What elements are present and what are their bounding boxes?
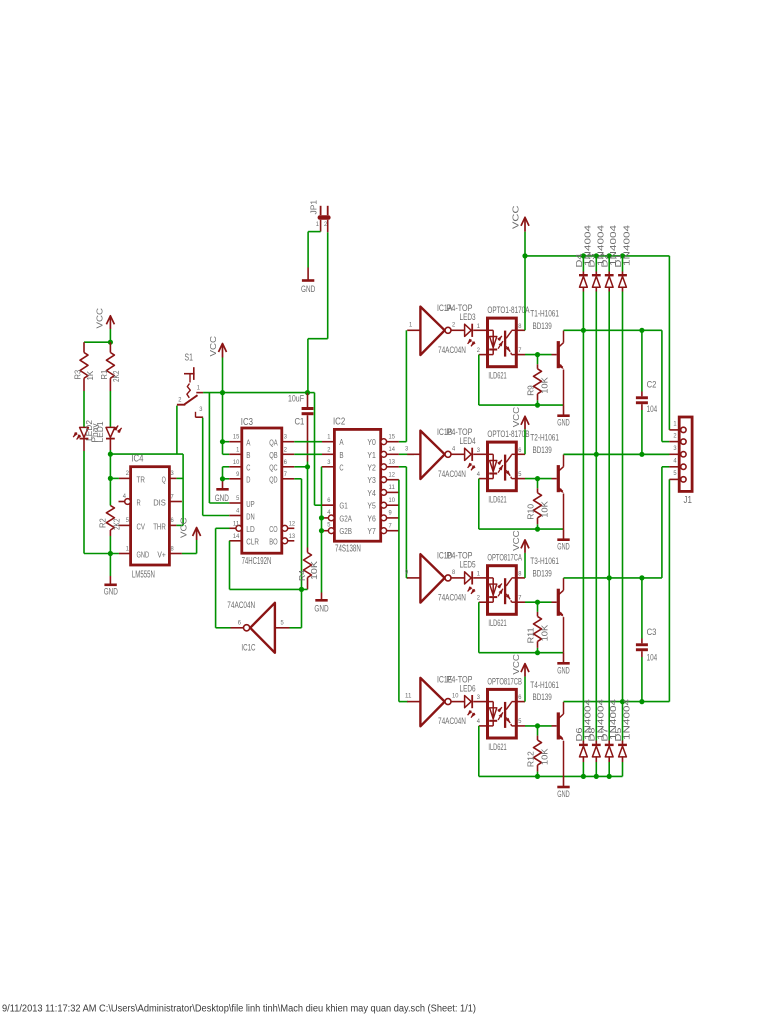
pin 2 number (opto in-): [477, 347, 481, 354]
pin 14 number: [389, 446, 396, 453]
capacitor C1: [302, 393, 314, 462]
svg-text:R4: R4: [298, 570, 307, 581]
wire TR to right column: [110, 453, 183, 455]
pin name BO: [269, 538, 277, 547]
svg-text:R9: R9: [526, 385, 535, 396]
wire column D3 cathode: [595, 256, 597, 274]
pin 13 number: [389, 459, 396, 466]
wire VCC to opto: [524, 677, 526, 702]
pin name Y4: [367, 489, 376, 498]
resistor R10: [534, 479, 542, 529]
label 74AC04N (IC1D): [438, 592, 466, 603]
pin 11 number (IC1E in): [405, 693, 412, 700]
pin name DIS: [153, 498, 166, 507]
label IC1B: [437, 426, 452, 437]
label D7: [601, 727, 610, 742]
label C1: [295, 416, 305, 427]
label R4: [298, 570, 307, 581]
wire D8 anode: [595, 756, 597, 776]
label LED1: [96, 421, 105, 442]
label Phay: [91, 423, 100, 443]
wire LED2 cathode down: [83, 451, 85, 554]
junction rail col4: [620, 253, 625, 258]
label T1-H1061: [530, 308, 559, 319]
svg-text:7: 7: [518, 347, 522, 354]
label IC1C: [241, 642, 255, 653]
pin name QC: [269, 464, 277, 473]
label OPTO1-8170B: [487, 428, 529, 439]
opto IC1E internal LED: [488, 702, 498, 726]
wire Y1 to IC1B: [399, 453, 414, 455]
label R1: [100, 369, 109, 379]
inverter IC1D input stub: [407, 577, 420, 579]
svg-text:6: 6: [284, 459, 288, 466]
pin 3 number: [327, 459, 331, 466]
label P4-TOP (IC1B): [447, 426, 473, 437]
pin name Y1: [367, 451, 376, 460]
opto IC1D phototransistor: [505, 578, 516, 604]
svg-text:OPTO817CA: OPTO817CA: [487, 552, 522, 563]
label VCC (IC4): [178, 518, 188, 539]
label R3: [73, 369, 82, 379]
svg-text:R10: R10: [526, 503, 535, 519]
junction base-R: [535, 723, 540, 728]
wire VCC rail: [525, 255, 669, 257]
label C2 value 104: [647, 403, 658, 414]
label 74AC04N (IC1B): [438, 468, 466, 479]
svg-text:5: 5: [126, 517, 130, 524]
junction C3 top: [639, 575, 644, 580]
svg-text:R3: R3: [73, 369, 82, 379]
label ILD621 (IC1E): [488, 741, 506, 752]
pin name QD: [269, 476, 277, 485]
label IC1E: [437, 673, 452, 684]
junction C1 top: [305, 390, 310, 395]
pin 7 number: [389, 522, 393, 529]
pin 13 number: [289, 533, 296, 540]
wire QA to IC2.A: [294, 441, 322, 443]
power VCC symbol (IC1D stage): [521, 540, 529, 553]
svg-text:G2B: G2B: [339, 527, 352, 536]
wire T4 row to J1 pin5: [668, 479, 670, 701]
pin name C: [246, 464, 250, 473]
wire opto IC1A to base: [525, 354, 557, 356]
pin GND stub: [119, 553, 131, 555]
wire R3 to LED2: [83, 391, 85, 427]
pin 1 number: [126, 545, 130, 552]
label ILD621 (IC1A): [488, 370, 506, 381]
svg-text:ILD621: ILD621: [488, 617, 506, 628]
transistor T1-H1061: [558, 331, 563, 406]
svg-text:LD: LD: [246, 525, 254, 534]
pin name G2B: [339, 527, 352, 536]
svg-text:8: 8: [452, 569, 456, 576]
transistor T4-H1061: [558, 702, 563, 777]
svg-text:2: 2: [673, 432, 677, 439]
resistor R3: [80, 342, 88, 391]
svg-text:VCC: VCC: [95, 308, 105, 329]
pin 6 number (opto C): [518, 447, 522, 454]
pin A stub: [229, 441, 242, 443]
pin J1-3 number: [673, 445, 677, 452]
svg-text:BD139: BD139: [533, 691, 552, 702]
svg-text:A: A: [246, 439, 251, 448]
svg-text:8: 8: [518, 323, 522, 330]
svg-text:BD139: BD139: [533, 320, 552, 331]
pin name CLR: [246, 538, 259, 547]
wire IC2.C G2A G2B tie: [322, 467, 329, 600]
wire IC1C in from R4 net: [275, 589, 302, 627]
label D5 value 1N4004: [622, 698, 631, 740]
pin 6 number: [171, 517, 175, 524]
svg-text:7: 7: [389, 522, 393, 529]
svg-text:10K: 10K: [540, 377, 549, 394]
pin 2 number: [327, 446, 331, 453]
label LED2: [85, 420, 94, 441]
pin name QB: [269, 451, 278, 460]
label VCC (left): [95, 308, 105, 329]
svg-text:104: 104: [647, 403, 658, 414]
svg-text:74S138N: 74S138N: [335, 544, 361, 555]
label OPTO817CB: [487, 675, 522, 686]
inverter IC1A input stub: [407, 329, 420, 331]
pin J1-1 stub: [669, 429, 680, 431]
svg-text:9/11/2013 11:17:32 AM C:\User: 9/11/2013 11:17:32 AM C:\Users\Administr…: [2, 1004, 476, 1015]
label BD139 (T4-H1061): [533, 691, 552, 702]
power VCC symbol (S1): [219, 344, 227, 358]
pin 9 number: [236, 471, 240, 478]
pin 4 number: [123, 493, 127, 500]
wire THR connect: [176, 524, 183, 526]
pin 3 number (IC1B in): [405, 445, 409, 452]
label IC2: [333, 417, 345, 428]
pin Q stub: [169, 477, 176, 479]
svg-text:C3: C3: [647, 626, 657, 637]
wire column 3 vertical: [608, 287, 610, 744]
diode D7: [605, 745, 614, 757]
svg-text:GND: GND: [104, 587, 119, 597]
IC IC2 box: [334, 429, 380, 541]
pin 1 number: [327, 434, 331, 441]
wire IC1C out to LD: [216, 528, 244, 628]
label VCC (IC1E stage): [511, 654, 521, 675]
pin name V+: [157, 550, 166, 559]
pin J1-5 circle: [681, 477, 686, 482]
svg-text:1: 1: [126, 545, 130, 552]
wire column D2 cathode: [608, 256, 610, 274]
svg-text:4: 4: [123, 493, 127, 500]
label P4-TOP (IC1A): [447, 302, 473, 313]
pin 5 number: [126, 517, 130, 524]
power VCC symbol (IC1E stage): [521, 664, 529, 677]
pin 7 number: [171, 493, 175, 500]
pin 3 number: [284, 434, 288, 441]
junction bottom rail col2: [594, 774, 599, 779]
wire Y2 to IC1D: [399, 467, 408, 578]
svg-text:R12: R12: [526, 751, 535, 767]
wire column D4 cathode: [582, 256, 584, 274]
pin JP1-1 number: [316, 222, 320, 228]
svg-text:B: B: [339, 451, 344, 460]
label IC4: [131, 454, 144, 465]
wire S1 pin2 down: [176, 406, 178, 455]
pin name Y3: [367, 476, 376, 485]
svg-text:2: 2: [126, 470, 130, 477]
svg-text:9: 9: [236, 471, 240, 478]
svg-text:IC3: IC3: [241, 417, 254, 428]
svg-text:IC2: IC2: [333, 417, 345, 428]
svg-text:2: 2: [477, 347, 481, 354]
svg-text:3: 3: [171, 470, 175, 477]
wire C1 bottom to QC: [307, 462, 309, 467]
svg-text:4: 4: [327, 509, 331, 516]
pin 3 number (opto in+): [477, 447, 481, 454]
svg-text:VCC: VCC: [511, 530, 521, 551]
pin 8 number (opto C): [518, 570, 522, 577]
svg-text:G2A: G2A: [339, 514, 352, 523]
label D3 value 1N4004: [596, 224, 605, 266]
svg-text:6: 6: [518, 447, 522, 454]
pin Y3 stub with bubble: [381, 477, 399, 483]
wire VCC rail to J1 pin1: [668, 256, 670, 430]
svg-text:15: 15: [233, 434, 240, 441]
wire S1 pin1 net: [203, 392, 307, 394]
wire T2-H1061 collector row: [564, 453, 670, 455]
inverter IC1A: [420, 307, 451, 355]
label C3: [647, 626, 657, 637]
wire emitter to ground: [563, 776, 565, 786]
label 74AC04N (IC1A): [438, 344, 466, 355]
LED LED3 symbol: [465, 324, 488, 347]
svg-text:10K: 10K: [310, 560, 319, 580]
junction col3 phase row: [607, 575, 612, 580]
svg-text:1N4004: 1N4004: [622, 698, 631, 740]
label D5: [614, 727, 623, 742]
pin name R: [137, 498, 141, 507]
ground at IC3 inputs: [215, 489, 230, 503]
wire T1-H1061 collector row: [564, 329, 662, 331]
svg-text:10K: 10K: [540, 501, 549, 518]
label R11: [526, 627, 535, 643]
wire opto IC1E to base: [525, 725, 557, 727]
inverter IC1E: [420, 678, 451, 726]
junction base-R: [535, 476, 540, 481]
svg-text:74AC04N: 74AC04N: [227, 599, 255, 610]
pin 7 number (opto E): [518, 594, 522, 601]
junction bottom rail col1: [581, 774, 586, 779]
pin 5 number: [327, 522, 331, 529]
svg-text:3: 3: [284, 434, 288, 441]
svg-text:3: 3: [327, 459, 331, 466]
svg-text:5: 5: [518, 471, 522, 478]
label R2: [98, 518, 107, 528]
pin 12 number: [289, 520, 296, 527]
pin 8 number (IC1D out): [452, 569, 456, 576]
pin name Q: [162, 475, 166, 484]
svg-text:4: 4: [673, 458, 677, 465]
junction base-R: [535, 600, 540, 605]
optocoupler OPTO817CA D box: [488, 566, 517, 615]
LED LED5 symbol: [465, 571, 488, 594]
svg-text:74AC04N: 74AC04N: [438, 592, 466, 603]
svg-text:4: 4: [236, 508, 240, 515]
pin Y5 stub with bubble: [381, 502, 399, 508]
pin name DN: [246, 512, 254, 521]
label ILD621 (IC1B): [488, 494, 506, 505]
wire emitter to ground: [563, 653, 565, 663]
pin QA stub: [282, 441, 295, 443]
pin stub opto IC1A emitter: [516, 354, 525, 356]
label D1 value 1N4004: [622, 224, 631, 266]
pin 5 number (opto E): [518, 718, 522, 725]
label D2 value 1N4004: [609, 224, 618, 266]
opto IC1D internal LED: [488, 578, 498, 602]
svg-text:UP: UP: [246, 500, 255, 509]
wire D5 anode: [622, 756, 624, 776]
wire IC1A output: [451, 329, 464, 331]
junction G2A: [319, 515, 324, 520]
pin J1-3 circle: [681, 452, 686, 457]
svg-text:74AC04N: 74AC04N: [438, 468, 466, 479]
wire VCC stem: [222, 358, 224, 393]
label VCC (IC1B stage): [511, 407, 521, 428]
junction col1 phase row: [581, 328, 586, 333]
pin name D: [246, 476, 250, 485]
pin 8 number: [171, 545, 175, 552]
wire IC1D stage return loop: [479, 602, 564, 653]
pin R stub with bubble: [119, 499, 131, 505]
svg-text:T1-H1061: T1-H1061: [530, 308, 559, 319]
wire V+ to VCC: [182, 540, 197, 554]
svg-text:8: 8: [171, 545, 175, 552]
pin LD stub with bubble: [230, 525, 242, 531]
svg-text:9: 9: [389, 510, 393, 517]
svg-text:LED1: LED1: [96, 421, 105, 442]
svg-text:5: 5: [327, 522, 331, 529]
pin name LD: [246, 525, 254, 534]
svg-text:4: 4: [477, 471, 481, 478]
pin J1-2 stub: [669, 441, 680, 443]
wire emitter to ground: [563, 529, 565, 539]
wire JP1 pin2 to VCC net: [308, 232, 328, 392]
svg-text:6: 6: [171, 517, 175, 524]
svg-text:Y2: Y2: [367, 463, 376, 472]
junction TR net at pin: [108, 476, 113, 481]
pin 5 number (IC1C in): [281, 620, 285, 627]
label C1 value 10uF: [288, 393, 304, 404]
svg-text:T3-H1061: T3-H1061: [530, 555, 559, 566]
pin stub opto IC1E emitter: [516, 725, 525, 727]
wire VCC to opto: [524, 429, 526, 454]
pin name G1: [339, 502, 348, 511]
svg-text:THR: THR: [153, 522, 166, 531]
pin name THR: [153, 522, 166, 531]
pin 12 number: [389, 471, 396, 478]
diode D8: [592, 745, 601, 757]
opto IC1A internal LED: [488, 330, 498, 354]
label R3 value 1K: [86, 370, 95, 380]
svg-text:104: 104: [647, 652, 658, 663]
pin 10 number: [389, 497, 396, 504]
pin J1-4 number: [673, 458, 677, 465]
junction C3 bottom: [639, 699, 644, 704]
optocoupler OPTO1-8170B B box: [488, 442, 517, 491]
LED D1 (LED1): [106, 426, 122, 451]
svg-text:14: 14: [389, 446, 396, 453]
svg-text:3: 3: [673, 445, 677, 452]
svg-text:1: 1: [236, 446, 240, 453]
wire opto IC1D to base: [525, 601, 557, 603]
svg-text:4: 4: [452, 445, 456, 452]
pin J1-2 number: [673, 432, 677, 439]
pin 1 number (opto in+): [477, 323, 481, 330]
pin 5 number (opto E): [518, 471, 522, 478]
wire D6 anode: [582, 756, 584, 776]
IC IC4 box: [131, 467, 170, 565]
wire CLR to R4 bottom: [230, 541, 308, 590]
pin 1 number: [236, 446, 240, 453]
label IC1D: [437, 550, 452, 561]
label D7 value 1N4004: [609, 698, 618, 740]
pin name TR: [137, 475, 145, 484]
label D8: [588, 727, 597, 742]
pin CLR stub: [229, 540, 242, 542]
label T4-H1061: [530, 679, 559, 690]
pin 4 number: [236, 508, 240, 515]
svg-text:GND: GND: [557, 665, 570, 675]
svg-text:OPTO1-8170B: OPTO1-8170B: [487, 428, 529, 439]
svg-text:10: 10: [233, 459, 240, 466]
pin 2 number (opto in-): [477, 594, 481, 601]
pin V+ stub: [169, 553, 182, 555]
svg-text:TR: TR: [137, 475, 145, 484]
connector J1 box: [679, 417, 692, 491]
svg-text:5: 5: [281, 620, 285, 627]
label BD139 (T1-H1061): [533, 320, 552, 331]
label D8 value 1N4004: [596, 698, 605, 740]
switch S1: [177, 367, 203, 417]
opto IC1E light arrows: [497, 707, 503, 720]
svg-text:1: 1: [673, 421, 677, 428]
pin J1-5 number: [673, 470, 677, 477]
svg-text:9: 9: [405, 569, 409, 576]
pin G2B bubble: [328, 528, 334, 534]
svg-text:R2: R2: [98, 518, 107, 528]
pin 11 number: [233, 520, 240, 527]
ground below IC2: [314, 600, 329, 613]
junction rail col3: [607, 253, 612, 258]
svg-text:10: 10: [452, 693, 459, 700]
label D4: [575, 253, 584, 268]
junction col4 phase row: [620, 699, 625, 704]
svg-text:6: 6: [327, 497, 331, 504]
pin 15 number: [389, 433, 396, 440]
power VCC symbol (IC4): [193, 528, 201, 541]
wire DN feed: [203, 418, 230, 516]
svg-text:2: 2: [477, 594, 481, 601]
diode D5: [618, 745, 627, 757]
label T3-H1061: [530, 555, 559, 566]
svg-text:2: 2: [284, 446, 288, 453]
svg-text:2K2: 2K2: [112, 518, 121, 530]
wire IC1E stage return loop: [479, 726, 623, 777]
ground at T2-H1061: [557, 540, 570, 552]
wire T3-H1061 collector row: [564, 577, 662, 579]
wire R3-R1 top tie: [84, 341, 110, 343]
svg-text:11: 11: [405, 693, 412, 700]
pin stub opto IC1E cathode: [479, 725, 488, 727]
pin 4 number: [327, 509, 331, 516]
